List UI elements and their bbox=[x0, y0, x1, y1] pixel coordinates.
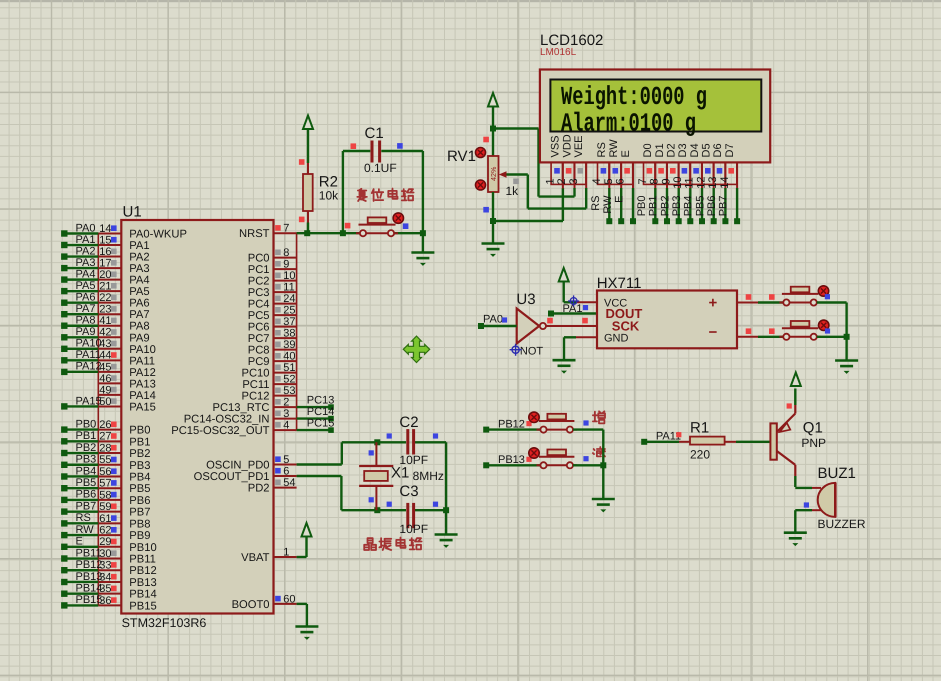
svg-text:PC14: PC14 bbox=[307, 406, 335, 418]
svg-text:PC7: PC7 bbox=[248, 333, 270, 345]
svg-text:38: 38 bbox=[283, 328, 295, 340]
svg-text:D0: D0 bbox=[642, 143, 654, 157]
svg-text:2: 2 bbox=[556, 178, 568, 184]
svg-text:PB7: PB7 bbox=[718, 196, 730, 217]
svg-text:PA3: PA3 bbox=[129, 263, 149, 275]
svg-text:4: 4 bbox=[283, 420, 289, 432]
svg-text:PA2: PA2 bbox=[129, 252, 149, 264]
svg-text:11: 11 bbox=[283, 282, 294, 294]
svg-text:VSS: VSS bbox=[550, 135, 562, 157]
svg-text:PB0: PB0 bbox=[636, 196, 648, 217]
svg-text:D5: D5 bbox=[701, 143, 713, 157]
svg-text:PC1: PC1 bbox=[248, 264, 270, 276]
svg-text:D3: D3 bbox=[677, 143, 689, 157]
svg-text:+: + bbox=[709, 295, 718, 312]
svg-text:PB7: PB7 bbox=[129, 507, 150, 519]
svg-text:25: 25 bbox=[283, 305, 295, 317]
svg-text:C3: C3 bbox=[399, 483, 418, 500]
svg-text:D4: D4 bbox=[689, 143, 701, 157]
svg-text:VDD: VDD bbox=[561, 134, 573, 157]
svg-text:PB2: PB2 bbox=[129, 448, 150, 460]
svg-text:26: 26 bbox=[99, 419, 111, 431]
svg-text:9: 9 bbox=[283, 259, 289, 271]
svg-text:6: 6 bbox=[283, 465, 289, 477]
svg-text:OSCIN_PD0: OSCIN_PD0 bbox=[206, 460, 269, 472]
svg-text:PA1: PA1 bbox=[129, 240, 149, 252]
svg-text:39: 39 bbox=[283, 339, 295, 351]
svg-text:27: 27 bbox=[99, 431, 111, 443]
svg-text:R1: R1 bbox=[690, 419, 709, 436]
svg-text:PB4: PB4 bbox=[683, 196, 695, 217]
svg-text:37: 37 bbox=[283, 316, 295, 328]
svg-text:8: 8 bbox=[649, 178, 661, 184]
svg-text:10: 10 bbox=[283, 270, 295, 282]
svg-text:U3: U3 bbox=[516, 291, 535, 308]
svg-text:59: 59 bbox=[99, 501, 111, 513]
svg-text:10: 10 bbox=[672, 177, 684, 189]
svg-text:PA0-WKUP: PA0-WKUP bbox=[129, 229, 187, 241]
svg-text:61: 61 bbox=[99, 513, 111, 525]
svg-text:PB12: PB12 bbox=[129, 565, 156, 577]
svg-text:PA6: PA6 bbox=[129, 298, 149, 310]
svg-text:24: 24 bbox=[283, 293, 295, 305]
svg-text:OSCOUT_PD1: OSCOUT_PD1 bbox=[194, 471, 270, 483]
svg-text:RV1: RV1 bbox=[447, 148, 476, 165]
svg-text:8: 8 bbox=[283, 247, 289, 259]
svg-text:PB10: PB10 bbox=[129, 542, 156, 554]
svg-text:U1: U1 bbox=[123, 204, 142, 221]
svg-text:PA8: PA8 bbox=[129, 321, 149, 333]
svg-text:10k: 10k bbox=[319, 189, 339, 203]
svg-text:1: 1 bbox=[283, 546, 289, 558]
svg-text:PC10: PC10 bbox=[242, 368, 270, 380]
svg-text:PB13: PB13 bbox=[498, 454, 525, 466]
svg-text:E: E bbox=[614, 196, 626, 203]
svg-text:46: 46 bbox=[99, 373, 111, 385]
svg-text:C2: C2 bbox=[399, 414, 418, 431]
svg-text:PC14-OSC32_IN: PC14-OSC32_IN bbox=[184, 414, 270, 426]
svg-text:22: 22 bbox=[99, 292, 111, 304]
svg-text:RS: RS bbox=[590, 196, 602, 211]
svg-text:PA4: PA4 bbox=[129, 275, 149, 287]
svg-text:PB2: PB2 bbox=[659, 196, 671, 217]
svg-text:PB14: PB14 bbox=[129, 589, 156, 601]
svg-text:PA9: PA9 bbox=[129, 332, 149, 344]
svg-text:54: 54 bbox=[283, 477, 295, 489]
svg-text:RS: RS bbox=[596, 142, 608, 157]
svg-text:PA10: PA10 bbox=[129, 344, 156, 356]
svg-text:PD2: PD2 bbox=[248, 483, 270, 495]
svg-text:D6: D6 bbox=[712, 143, 724, 157]
svg-text:BUZZER: BUZZER bbox=[818, 517, 866, 531]
svg-text:58: 58 bbox=[99, 489, 111, 501]
svg-text:PA15: PA15 bbox=[129, 401, 156, 413]
svg-text:PC6: PC6 bbox=[248, 322, 270, 334]
svg-text:PC0: PC0 bbox=[248, 253, 270, 265]
svg-text:Q1: Q1 bbox=[803, 419, 823, 436]
svg-text:E: E bbox=[620, 150, 632, 157]
svg-text:7: 7 bbox=[637, 178, 649, 184]
svg-text:60: 60 bbox=[283, 593, 295, 605]
svg-text:RW: RW bbox=[602, 195, 614, 214]
svg-text:PB8: PB8 bbox=[129, 518, 150, 530]
svg-text:X1: X1 bbox=[391, 465, 409, 482]
svg-text:PC15-OSC32_OUT: PC15-OSC32_OUT bbox=[171, 425, 269, 437]
svg-text:13: 13 bbox=[707, 177, 719, 189]
svg-text:LM016L: LM016L bbox=[540, 47, 577, 58]
svg-text:3: 3 bbox=[568, 178, 580, 184]
svg-text:4: 4 bbox=[591, 178, 603, 184]
svg-text:PC4: PC4 bbox=[248, 299, 270, 311]
svg-text:PNP: PNP bbox=[801, 436, 826, 450]
svg-text:41: 41 bbox=[99, 315, 111, 327]
svg-text:28: 28 bbox=[99, 442, 111, 454]
svg-text:PC11: PC11 bbox=[242, 379, 269, 391]
svg-text:23: 23 bbox=[99, 304, 111, 316]
svg-text:53: 53 bbox=[283, 385, 295, 397]
svg-text:PA14: PA14 bbox=[129, 390, 156, 402]
svg-text:20: 20 bbox=[99, 269, 111, 281]
svg-text:−: − bbox=[709, 324, 718, 341]
svg-text:PA11: PA11 bbox=[129, 355, 155, 367]
svg-text:16: 16 bbox=[99, 246, 111, 258]
svg-text:55: 55 bbox=[99, 454, 111, 466]
svg-text:220: 220 bbox=[690, 447, 710, 461]
svg-text:56: 56 bbox=[99, 466, 111, 478]
svg-text:PC2: PC2 bbox=[248, 276, 270, 288]
svg-text:PC12: PC12 bbox=[242, 391, 270, 403]
svg-text:12: 12 bbox=[695, 177, 707, 189]
svg-text:PB11: PB11 bbox=[129, 554, 156, 566]
svg-text:PC9: PC9 bbox=[248, 356, 270, 368]
svg-text:51: 51 bbox=[283, 362, 295, 374]
svg-text:PB5: PB5 bbox=[694, 196, 706, 217]
svg-text:15: 15 bbox=[99, 234, 111, 246]
svg-text:PB5: PB5 bbox=[129, 483, 150, 495]
svg-text:PB6: PB6 bbox=[129, 495, 150, 507]
svg-text:PC15: PC15 bbox=[307, 418, 335, 430]
svg-text:14: 14 bbox=[99, 223, 111, 235]
svg-text:2: 2 bbox=[283, 397, 289, 409]
svg-text:PC13: PC13 bbox=[307, 395, 335, 407]
svg-text:STM32F103R6: STM32F103R6 bbox=[122, 616, 207, 630]
svg-text:PB12: PB12 bbox=[498, 418, 525, 430]
svg-text:0.1UF: 0.1UF bbox=[364, 161, 397, 175]
svg-text:40: 40 bbox=[283, 351, 295, 363]
svg-text:5: 5 bbox=[603, 178, 615, 184]
svg-text:VBAT: VBAT bbox=[241, 552, 270, 564]
svg-text:3: 3 bbox=[283, 408, 289, 420]
svg-text:PB13: PB13 bbox=[129, 577, 156, 589]
svg-text:52: 52 bbox=[283, 374, 295, 386]
svg-text:PA0: PA0 bbox=[483, 313, 503, 325]
svg-text:NRST: NRST bbox=[239, 228, 270, 240]
svg-text:PA5: PA5 bbox=[129, 286, 149, 298]
svg-text:PC5: PC5 bbox=[248, 310, 270, 322]
svg-text:42%: 42% bbox=[489, 166, 498, 181]
svg-text:14: 14 bbox=[719, 177, 731, 189]
svg-text:PB15: PB15 bbox=[129, 600, 156, 612]
svg-text:1k: 1k bbox=[506, 184, 520, 198]
svg-text:NOT: NOT bbox=[520, 346, 544, 358]
svg-text:PB1: PB1 bbox=[129, 436, 150, 448]
svg-text:9: 9 bbox=[660, 178, 672, 184]
svg-text:PB0: PB0 bbox=[129, 425, 150, 437]
svg-text:VEE: VEE bbox=[573, 135, 585, 157]
svg-text:PB9: PB9 bbox=[129, 530, 150, 542]
svg-text:GND: GND bbox=[604, 332, 629, 344]
svg-text:BUZ1: BUZ1 bbox=[818, 465, 856, 482]
svg-text:PB3: PB3 bbox=[671, 196, 683, 217]
svg-text:D2: D2 bbox=[666, 143, 678, 157]
svg-text:PA12: PA12 bbox=[129, 367, 156, 379]
svg-text:PA7: PA7 bbox=[129, 309, 149, 321]
svg-text:PC8: PC8 bbox=[248, 345, 270, 357]
svg-text:D7: D7 bbox=[724, 143, 736, 157]
svg-text:10PF: 10PF bbox=[399, 522, 428, 536]
svg-text:BOOT0: BOOT0 bbox=[232, 599, 270, 611]
svg-text:PB4: PB4 bbox=[129, 471, 150, 483]
svg-text:SCK: SCK bbox=[612, 319, 640, 334]
svg-text:PA13: PA13 bbox=[129, 378, 156, 390]
svg-text:7: 7 bbox=[283, 223, 289, 235]
svg-text:6: 6 bbox=[615, 178, 627, 184]
svg-text:21: 21 bbox=[99, 281, 111, 293]
svg-text:17: 17 bbox=[99, 257, 111, 269]
svg-text:1: 1 bbox=[545, 178, 557, 184]
svg-text:PC3: PC3 bbox=[248, 287, 270, 299]
svg-text:PC13_RTC: PC13_RTC bbox=[213, 402, 270, 414]
svg-text:57: 57 bbox=[99, 478, 111, 490]
svg-text:RW: RW bbox=[608, 139, 620, 158]
svg-text:62: 62 bbox=[99, 524, 111, 536]
svg-text:PB3: PB3 bbox=[129, 460, 150, 472]
svg-text:8MHz: 8MHz bbox=[413, 469, 444, 483]
svg-text:Alarm:0100 g: Alarm:0100 g bbox=[561, 108, 696, 138]
svg-text:C1: C1 bbox=[365, 125, 384, 142]
svg-text:PB1: PB1 bbox=[648, 196, 660, 217]
svg-text:D1: D1 bbox=[654, 143, 666, 157]
svg-text:PB6: PB6 bbox=[706, 196, 718, 217]
svg-text:5: 5 bbox=[283, 454, 289, 466]
svg-text:11: 11 bbox=[684, 177, 696, 188]
